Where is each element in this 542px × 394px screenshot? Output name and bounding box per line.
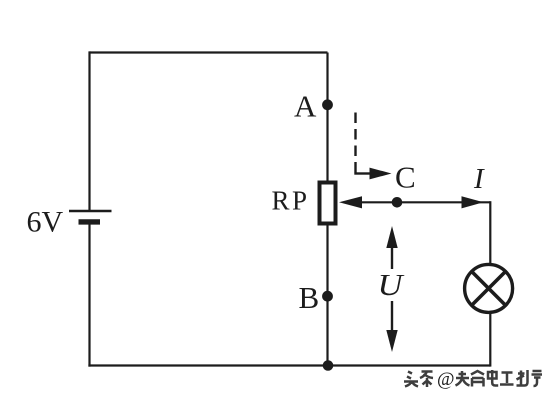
voltage U down arrowhead (386, 330, 397, 352)
svg-text:C: C (395, 160, 416, 195)
C pointer arrowhead (370, 168, 392, 180)
voltage U down arrow shaft (391, 301, 393, 331)
voltage U up arrow shaft (391, 247, 393, 269)
wire top (90, 51, 328, 53)
svg-text:@: @ (437, 369, 455, 390)
svg-text:RP: RP (272, 186, 310, 216)
wire bottom (88, 364, 490, 366)
wire right lower (489, 313, 491, 367)
svg-text:A: A (294, 89, 317, 124)
voltage U up arrowhead (386, 226, 397, 248)
svg-text:U: U (378, 267, 406, 302)
wire wiper line (345, 201, 490, 203)
svg-text:I: I (473, 163, 485, 195)
svg-text:6V: 6V (27, 206, 64, 239)
battery BT1 short plate (79, 219, 101, 224)
potentiometer RP body (320, 183, 336, 224)
dashed line elbow horizontal (354, 172, 370, 174)
dashed wiper-travel line (354, 113, 356, 174)
node B dot (322, 291, 333, 302)
wire left lower (88, 222, 90, 367)
wire A branch upper (326, 53, 328, 182)
wiper arrowhead (339, 196, 362, 208)
wire left (88, 51, 90, 211)
wire A branch lower (326, 225, 328, 366)
bottom junction dot (323, 360, 334, 371)
battery BT1 long plate (69, 210, 112, 213)
lamp EL circle (465, 264, 513, 312)
lamp EL cross stroke 1 (472, 271, 506, 305)
lamp EL cross stroke 2 (472, 271, 506, 305)
node C dot on wiper line (392, 197, 403, 208)
wire right upper (489, 201, 491, 265)
watermark 头条@老安电工速学 (404, 369, 542, 390)
current I arrowhead (462, 196, 484, 208)
svg-text:B: B (299, 280, 320, 315)
node A dot (322, 99, 333, 110)
